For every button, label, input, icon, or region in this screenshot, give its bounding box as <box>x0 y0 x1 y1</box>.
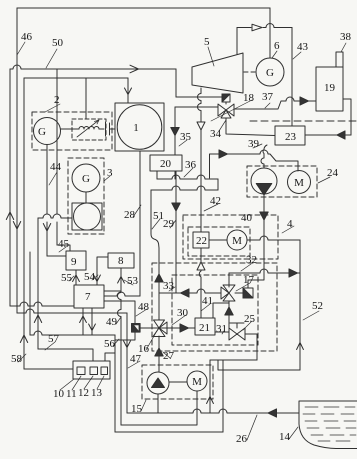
arrow bus x17 down <box>13 222 20 230</box>
box 7 <box>74 285 104 308</box>
svg-text:57: 57 <box>48 333 60 345</box>
motor M24 <box>288 171 311 194</box>
svg-text:47: 47 <box>130 353 142 365</box>
wire valve18 left y107 <box>175 106 218 108</box>
dashed box 2 (generator-exciter group) <box>32 112 112 150</box>
svg-text:37: 37 <box>262 91 274 103</box>
svg-text:15: 15 <box>131 403 143 415</box>
wire 49 bottom to M15 <box>121 391 197 425</box>
dashed box module B outer <box>152 263 277 351</box>
svg-text:11: 11 <box>66 388 77 400</box>
wire 30 valve16 to box21 <box>159 327 195 329</box>
box 10-13 <box>73 361 110 379</box>
wire 45 into box9 top <box>57 245 70 251</box>
svg-text:M: M <box>232 235 242 247</box>
wire 19 to 23 y135 <box>305 134 351 136</box>
svg-text:35: 35 <box>180 131 192 143</box>
wire box22 to M22 <box>209 239 227 241</box>
svg-text:30: 30 <box>177 307 189 319</box>
arrow up into valve17 <box>225 307 233 315</box>
wire G6 drop x270 <box>269 8 271 58</box>
leader 18 diagonal <box>211 100 252 121</box>
wire pump15 drain <box>157 394 159 413</box>
wire valve25 right down <box>245 334 257 360</box>
svg-text:3: 3 <box>107 167 113 179</box>
wire node square drain to box10 <box>105 332 135 361</box>
arrow 37 right <box>300 97 308 105</box>
arrow bus 57 up <box>34 315 41 323</box>
wire 51 staircase to valve16 <box>151 190 159 320</box>
wire steam line y27 <box>237 24 292 28</box>
svg-text:46: 46 <box>21 31 33 43</box>
wire engine feed x140 <box>127 78 129 103</box>
svg-text:8: 8 <box>118 255 124 267</box>
arrow tank water left <box>268 409 276 417</box>
square condenser 3 <box>72 203 102 230</box>
wire turbine top feed x237 <box>236 28 238 55</box>
dashed box exciter inner <box>72 119 106 140</box>
wire 28 x140 <box>139 151 141 296</box>
box 9 <box>66 251 86 270</box>
wire 49 x121 down <box>118 291 121 425</box>
svg-text:23: 23 <box>285 131 297 143</box>
svg-text:45: 45 <box>58 238 70 250</box>
wire M24 feed y154 <box>210 150 299 178</box>
generator G3 <box>72 164 100 192</box>
svg-text:58: 58 <box>11 353 23 365</box>
svg-text:17: 17 <box>243 274 255 286</box>
svg-text:10: 10 <box>53 388 65 400</box>
condenser circle <box>74 203 101 230</box>
svg-text:34: 34 <box>210 128 222 140</box>
chimney 38 <box>336 52 343 67</box>
pump 15 <box>147 372 169 394</box>
arrow 41 open up <box>197 262 205 270</box>
svg-text:29: 29 <box>163 218 175 230</box>
node square half-filled <box>132 324 141 333</box>
box 19 <box>316 67 343 111</box>
box 23 <box>275 126 305 145</box>
svg-text:31: 31 <box>216 323 227 335</box>
wire bus x10 into box7 y306 <box>10 302 74 306</box>
wire valve17 bottom <box>228 301 230 328</box>
wire suction main y415 <box>127 409 299 413</box>
solenoid 17 <box>243 288 253 298</box>
svg-text:1: 1 <box>133 122 139 134</box>
wire x17 under box7 y313 <box>17 309 127 313</box>
wire left bus x10 <box>9 69 11 306</box>
wire 57 y349 to box10 <box>38 349 93 361</box>
arrow on y69 <box>130 65 139 73</box>
box 20 <box>150 155 182 171</box>
wire box19 to right drop <box>343 99 351 135</box>
inductor coil <box>79 127 99 129</box>
wire 41 box22-box21 <box>199 248 201 318</box>
square around engine 1 <box>115 103 164 151</box>
wire x223 long <box>222 360 224 432</box>
svg-text:13: 13 <box>91 387 103 399</box>
wire y360 <box>210 359 257 361</box>
svg-text:9: 9 <box>71 256 77 268</box>
wire 33 y293 <box>159 289 221 293</box>
svg-text:21: 21 <box>199 322 210 334</box>
svg-text:52: 52 <box>312 300 323 312</box>
arrow bus 58 up <box>20 335 27 343</box>
arrow 35 down <box>171 128 179 136</box>
motor M15 <box>187 371 207 391</box>
wire pump24 drain x264 <box>248 194 264 288</box>
wire y370 from x300 <box>218 360 300 370</box>
svg-text:32: 32 <box>246 254 257 266</box>
wire pump15-M15 <box>169 381 187 383</box>
svg-text:M: M <box>294 177 304 189</box>
valve 18 three-way <box>218 104 234 116</box>
svg-text:14: 14 <box>279 431 291 443</box>
arrow 52 up <box>297 343 304 350</box>
wire 45 x57 <box>56 69 58 245</box>
wire x218 joiner <box>217 179 219 190</box>
valve 17 <box>221 285 235 301</box>
box 21 <box>195 318 215 335</box>
dashed box 24 <box>247 166 317 197</box>
shaft turbine-G6 <box>244 71 256 73</box>
svg-text:36: 36 <box>185 159 197 171</box>
wire node to valve16 <box>140 327 160 329</box>
arrow into box23 left-pointing <box>337 131 345 139</box>
water dashes <box>303 407 356 441</box>
svg-text:5: 5 <box>204 36 210 48</box>
wire y432 <box>115 431 223 433</box>
generator G6 <box>256 58 284 86</box>
box 22 <box>193 232 209 248</box>
pump 24 <box>251 168 277 194</box>
svg-text:48: 48 <box>138 301 150 313</box>
wire M22 right to x300 <box>247 236 300 240</box>
svg-text:55: 55 <box>61 272 73 284</box>
wire 37 valve18 right to box19 <box>234 97 316 109</box>
arrow 29 down <box>172 203 180 211</box>
wire x115 long drop <box>114 335 116 432</box>
svg-text:12: 12 <box>78 387 89 399</box>
wire y335 to x115 <box>30 331 115 335</box>
svg-text:41: 41 <box>202 295 213 307</box>
wire 36 y178 <box>157 175 218 179</box>
wire x210 riser <box>209 360 211 413</box>
wire x127 suction drop <box>126 313 128 413</box>
box20 tab <box>157 171 175 179</box>
wire valve16 down to pump15 <box>158 336 160 372</box>
wire left bus x17 <box>16 8 18 313</box>
generator G2 <box>34 118 61 145</box>
svg-text:G: G <box>266 67 274 79</box>
leader lines 10-13 <box>60 376 104 390</box>
wire 53 box7-box8 <box>104 268 121 291</box>
dashed box 15 <box>142 365 213 399</box>
wire 32 y273 <box>229 269 300 273</box>
svg-text:4: 4 <box>287 218 293 230</box>
dashed box 3 <box>68 158 104 234</box>
dashed box 4 outer <box>183 215 278 259</box>
svg-text:49: 49 <box>106 316 118 328</box>
svg-text:M: M <box>192 376 202 388</box>
arrow steam open triangle <box>252 24 262 31</box>
wire 39 box23 to pump24 <box>261 145 267 168</box>
wire 44 from G2 down x47 <box>46 145 48 256</box>
svg-text:43: 43 <box>297 41 309 53</box>
svg-text:33: 33 <box>163 280 175 292</box>
svg-text:G: G <box>82 173 90 185</box>
leader lines for labels <box>17 42 346 440</box>
arrow 32 right <box>289 269 297 277</box>
svg-text:38: 38 <box>340 31 352 43</box>
svg-text:20: 20 <box>160 158 172 170</box>
wire 58 to box10 y369 <box>24 368 73 370</box>
arrow 40 down <box>260 212 268 220</box>
dashed box module B inner <box>172 275 258 345</box>
tank 14 <box>299 401 357 449</box>
wire bus 58 x24 <box>23 78 25 369</box>
wire box21 top-right jog <box>213 303 229 318</box>
svg-text:22: 22 <box>196 235 207 247</box>
wire turbine drain x201 <box>198 88 202 232</box>
wire 29 x176 <box>175 171 177 293</box>
arrow 48 up <box>155 274 163 282</box>
arrow through coil <box>77 120 99 137</box>
turbine 5 <box>192 53 243 93</box>
svg-text:24: 24 <box>327 167 339 179</box>
wire 28 into box7 <box>104 292 140 296</box>
wire y190 <box>151 186 218 190</box>
wire 43 drop x292 <box>291 28 293 127</box>
svg-text:39: 39 <box>248 138 260 150</box>
wire bus 57 x38 <box>37 218 39 349</box>
dashed box 22-M inner <box>188 227 250 256</box>
wire 44 into box9 <box>47 255 66 257</box>
wire y78 inner loop <box>24 77 128 79</box>
wire y97 to valve18 solenoid <box>176 96 222 98</box>
svg-text:50: 50 <box>52 37 64 49</box>
wire top line y8 <box>17 7 270 9</box>
wire exciter feed x86 <box>85 78 87 119</box>
wire box7 right y299 to node square <box>104 301 135 324</box>
wire G3 to condenser <box>85 192 87 203</box>
svg-text:27: 27 <box>163 350 175 362</box>
engine circle 1 <box>117 105 162 150</box>
svg-text:56: 56 <box>104 338 116 350</box>
svg-text:53: 53 <box>127 275 139 287</box>
arrow x127 down <box>124 341 131 348</box>
dashed separator line right <box>250 120 357 122</box>
wire 55 box9-box7 <box>75 270 77 285</box>
wire valve17 top <box>228 273 230 287</box>
svg-text:26: 26 <box>236 433 248 445</box>
svg-text:6: 6 <box>274 40 280 52</box>
coupling bars <box>99 122 115 136</box>
arrow bus x10 up <box>6 212 13 220</box>
svg-text:44: 44 <box>50 161 62 173</box>
arrow on y154 <box>219 150 227 158</box>
wire 52 x300 <box>299 240 301 370</box>
box 8 <box>108 253 134 268</box>
arrow 44 down <box>43 224 50 232</box>
wire main air line y69 <box>10 65 176 69</box>
svg-text:42: 42 <box>210 195 221 207</box>
wire box21 right to valve25 <box>215 331 229 333</box>
wire 54 box8-box7 <box>97 257 108 285</box>
svg-text:25: 25 <box>244 313 256 325</box>
solenoid valve18 <box>222 94 230 102</box>
svg-text:40: 40 <box>241 212 253 224</box>
wire condenser line y218 <box>38 214 72 218</box>
wire corner x176 to solenoid line <box>175 69 177 97</box>
wire G2 to coil <box>61 128 80 130</box>
valve 25 <box>229 323 245 340</box>
wire box7 bottom drops <box>83 308 92 335</box>
wire 35 drop x177 <box>174 107 176 155</box>
svg-text:18: 18 <box>243 92 255 104</box>
svg-text:G: G <box>38 126 46 138</box>
svg-text:19: 19 <box>324 82 336 94</box>
motor M22 <box>227 230 247 250</box>
arrow open down triangle 34 <box>197 122 205 130</box>
svg-text:2: 2 <box>54 94 60 106</box>
arrow 33 left <box>181 289 189 297</box>
svg-text:28: 28 <box>124 209 136 221</box>
valve 16 three-way <box>153 320 167 337</box>
wire bus x30 <box>29 252 31 335</box>
wire 34 valve18 drain to box23 <box>226 118 275 136</box>
svg-text:7: 7 <box>85 291 91 303</box>
svg-text:54: 54 <box>84 271 96 283</box>
